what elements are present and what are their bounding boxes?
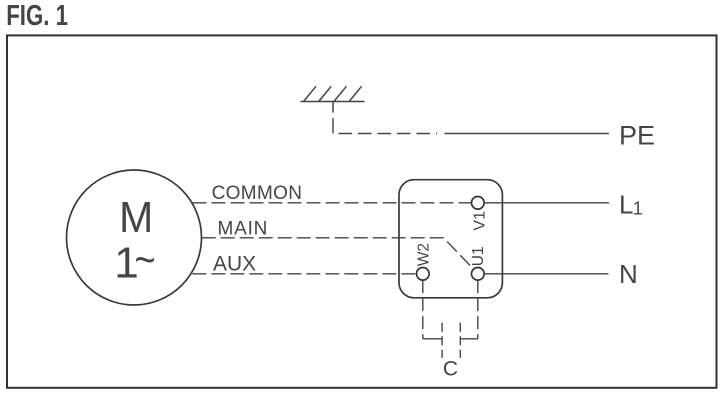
svg-text:AUX: AUX [213,252,256,275]
svg-text:FIG. 1: FIG. 1 [6,0,68,31]
svg-text:PE: PE [619,120,655,150]
svg-text:~: ~ [134,235,155,284]
svg-text:U1: U1 [470,246,487,266]
svg-text:1: 1 [633,199,643,219]
svg-text:V1: V1 [471,211,488,231]
svg-text:N: N [619,259,638,289]
svg-text:C: C [443,358,458,381]
svg-text:MAIN: MAIN [218,219,269,240]
svg-text:COMMON: COMMON [212,183,303,204]
svg-text:L: L [619,190,633,220]
svg-text:W2: W2 [416,243,433,266]
